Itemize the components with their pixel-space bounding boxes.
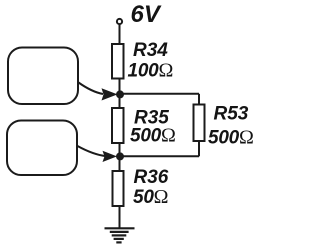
- svg-text:R36: R36: [134, 167, 169, 188]
- arrow 2 curve: [78, 146, 107, 156]
- svg-text:6V: 6V: [131, 1, 162, 28]
- terminal circle 6V supply: [117, 19, 122, 24]
- svg-text:R53: R53: [214, 104, 249, 125]
- wire R53 bottom vertical: [198, 141, 200, 156]
- wire node A to R35: [119, 94, 121, 108]
- label box 2: [7, 121, 77, 176]
- svg-text:R34: R34: [133, 40, 168, 61]
- arrow 1 head: [102, 88, 118, 100]
- wire R53 branch top vertical: [198, 94, 200, 105]
- wire terminal to R34: [119, 25, 121, 45]
- wire R53 to node B: [120, 155, 200, 157]
- wire node A to R53 branch: [120, 93, 200, 95]
- arrow 1 curve: [79, 83, 104, 95]
- wire node B to R36: [119, 156, 121, 171]
- node A junction dot: [116, 90, 124, 98]
- svg-text:500Ω: 500Ω: [208, 126, 254, 148]
- resistor R53 body: [194, 105, 205, 142]
- resistor R35 body: [112, 108, 124, 143]
- wire R36 to ground: [119, 206, 121, 228]
- node B junction dot: [116, 152, 124, 160]
- label box 1: [8, 48, 78, 105]
- arrow 2 head: [103, 151, 118, 162]
- resistor R34 body: [112, 44, 124, 79]
- wire R34 to node A: [119, 79, 121, 95]
- svg-text:500Ω: 500Ω: [130, 124, 176, 146]
- resistor R36 body: [113, 171, 124, 206]
- svg-text:100Ω: 100Ω: [128, 60, 174, 82]
- ground symbol: [105, 228, 135, 242]
- svg-text:50Ω: 50Ω: [133, 186, 168, 208]
- wire R35 to node B: [119, 143, 121, 157]
